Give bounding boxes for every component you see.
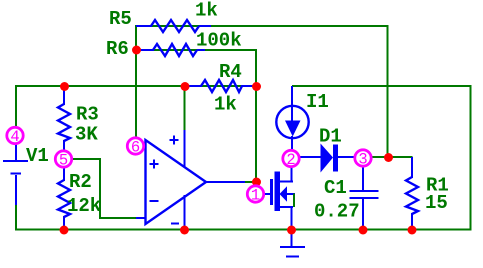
- battery V1: [3, 144, 28, 205]
- svg-text:4: 4: [10, 128, 19, 146]
- capacitor C1: [350, 167, 379, 229]
- junction dot ground / source: [287, 226, 296, 235]
- node 6 bubble: [127, 138, 143, 157]
- op-amp V+ pin lead: [184, 130, 186, 167]
- svg-text:R2: R2: [69, 171, 92, 193]
- op-amp V- pin lead: [184, 195, 186, 229]
- resistor R1: [411, 157, 413, 178]
- svg-text:3K: 3K: [75, 124, 98, 146]
- wire node3 junction to R1 top: [372, 156, 413, 158]
- junction dot R1 bottom: [408, 226, 417, 235]
- svg-text:5: 5: [59, 152, 68, 170]
- wire main rail y86 with left drop to node 4: [16, 86, 256, 126]
- svg-text:2: 2: [286, 151, 295, 169]
- diode D1: [300, 144, 354, 173]
- junction dot R3 top: [60, 82, 69, 91]
- svg-text:R5: R5: [109, 8, 132, 30]
- transistor M1 nmos: [265, 167, 296, 230]
- resistor R4: [187, 85, 202, 87]
- svg-text:R6: R6: [106, 38, 129, 60]
- wire V+ supply tap: [184, 86, 186, 132]
- svg-text:R4: R4: [219, 61, 242, 83]
- svg-text:3: 3: [358, 151, 367, 169]
- op-amp output pin lead: [206, 181, 245, 183]
- wire R6 right link down to gate junction: [136, 50, 256, 185]
- resistor R2: [63, 168, 65, 181]
- junction dot V+ tap / R4 left: [181, 82, 190, 91]
- svg-text:D1: D1: [319, 126, 342, 148]
- svg-text:1k: 1k: [195, 0, 218, 22]
- svg-text:12k: 12k: [67, 195, 101, 217]
- junction dot C1 bottom: [359, 226, 368, 235]
- node 3 bubble: [355, 150, 371, 169]
- op-amp U1 triangle: [146, 140, 207, 224]
- junction dot R2 bottom: [60, 226, 69, 235]
- op-amp V- label -: [171, 223, 179, 225]
- wire R5 loop: left vertical, top run, right vertical down to node3 junction: [136, 26, 388, 157]
- svg-text:I1: I1: [306, 91, 329, 113]
- op-amp non-inverting input marker +: [150, 160, 159, 169]
- junction dot top wire drop at node3: [384, 153, 393, 162]
- node 4 bubble: [7, 127, 23, 146]
- svg-text:C1: C1: [324, 177, 347, 199]
- svg-text:V1: V1: [26, 145, 49, 167]
- current source I1: [276, 86, 308, 150]
- svg-text:100k: 100k: [196, 30, 242, 52]
- wire bottom rail, right edge, I1 top run: [16, 86, 471, 230]
- wire feedback node5 to inverting input: [72, 159, 137, 218]
- node 1 bubble: [247, 186, 263, 205]
- svg-text:0.27: 0.27: [314, 201, 360, 223]
- resistor R6: [137, 49, 154, 51]
- junction dot R4 right: [252, 82, 261, 91]
- op-amp inverting input pin lead: [136, 217, 146, 219]
- op-amp inverting input marker -: [150, 200, 159, 202]
- svg-text:1k: 1k: [214, 94, 237, 116]
- node 5 bubble: [55, 151, 71, 170]
- svg-text:15: 15: [425, 192, 448, 214]
- junction dot gate / output: [252, 178, 261, 187]
- wire op-amp output to gate junction: [244, 181, 257, 183]
- resistor R5: [136, 25, 152, 27]
- resistor R3: [63, 86, 65, 105]
- svg-text:1: 1: [251, 187, 260, 205]
- junction dot R6 left: [132, 46, 141, 55]
- op-amp V+ label +: [170, 136, 179, 145]
- svg-text:6: 6: [131, 139, 140, 157]
- node 2 bubble: [283, 150, 299, 169]
- ground: [280, 230, 305, 257]
- svg-text:R3: R3: [76, 104, 99, 126]
- junction dot V- bottom: [180, 226, 189, 235]
